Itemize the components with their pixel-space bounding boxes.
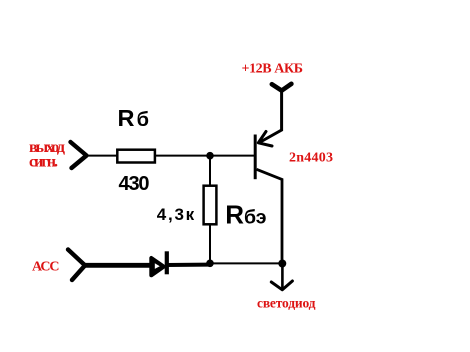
svg-text:4,3к: 4,3к [157, 205, 195, 224]
input connector (выход сигн.) [71, 142, 87, 168]
wire: node B to node C [210, 262, 283, 264]
transistor Q1 emitter arrow (PNP, pointing at base bar) [258, 132, 272, 147]
resistor R2 body (Rбэ 4,3к) [204, 186, 217, 225]
LED output arrow stem [281, 264, 284, 290]
wire: resistor R2 down to node B [209, 225, 211, 264]
node C junction dot [278, 260, 286, 268]
svg-text:430: 430 [119, 173, 150, 195]
node B junction dot [206, 260, 214, 268]
svg-text:2n4403: 2n4403 [289, 150, 333, 165]
svg-text:+12В АКБ: +12В АКБ [242, 61, 304, 76]
node A junction dot [206, 152, 214, 160]
resistor R1 body (Rб 430) [117, 150, 155, 163]
svg-text:АСС: АСС [32, 259, 60, 274]
power connector +12V [272, 84, 292, 91]
svg-text:Rб: Rб [118, 105, 150, 131]
input connector (АСС) [68, 250, 85, 281]
svg-text:светодиод: светодиод [257, 295, 316, 310]
thick wire: diode D1 to node B [166, 263, 208, 267]
wire: +12V connector down to emitter bend [259, 91, 282, 143]
node label: выход сигн. [29, 139, 65, 171]
LED output arrowhead [271, 281, 292, 290]
transistor Q1 base bar [254, 135, 257, 180]
wire: resistor R1 to node A and on to transistor base [156, 155, 255, 157]
diode D1 cathode bar [165, 251, 169, 274]
svg-text:сигн.: сигн. [29, 153, 58, 170]
transistor Q1 collector diagonal [257, 169, 283, 263]
wire: node A down to resistor R2 [209, 156, 211, 186]
wire: connector to resistor R1 [85, 155, 117, 157]
diode D1 triangle [151, 258, 164, 275]
thick wire: АСС connector to diode D1 [84, 263, 152, 268]
